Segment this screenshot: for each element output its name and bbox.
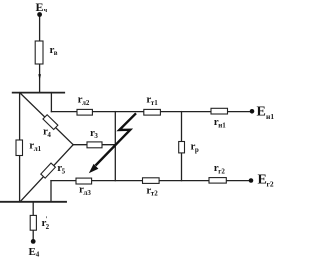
svg-text:т2: т2: [151, 190, 158, 198]
svg-text:р: р: [195, 146, 199, 154]
svg-text:5: 5: [62, 168, 66, 176]
svg-text:E: E: [258, 173, 267, 188]
svg-text:3: 3: [94, 132, 98, 140]
svg-text:E: E: [36, 0, 44, 14]
svg-text:2: 2: [46, 223, 50, 231]
svg-text:л2: л2: [82, 99, 90, 107]
svg-text:л1: л1: [34, 145, 42, 153]
svg-text:н1: н1: [218, 122, 226, 130]
svg-text:н1: н1: [266, 112, 274, 121]
svg-text:л3: л3: [83, 189, 91, 197]
svg-text:г2: г2: [218, 168, 225, 176]
svg-text:т1: т1: [151, 99, 158, 107]
svg-text:E: E: [257, 105, 266, 120]
svg-text:в: в: [54, 49, 58, 57]
svg-text:4: 4: [36, 250, 40, 258]
svg-text:г2: г2: [267, 179, 274, 188]
svg-text:4: 4: [47, 131, 51, 139]
svg-text:ч: ч: [44, 8, 48, 14]
